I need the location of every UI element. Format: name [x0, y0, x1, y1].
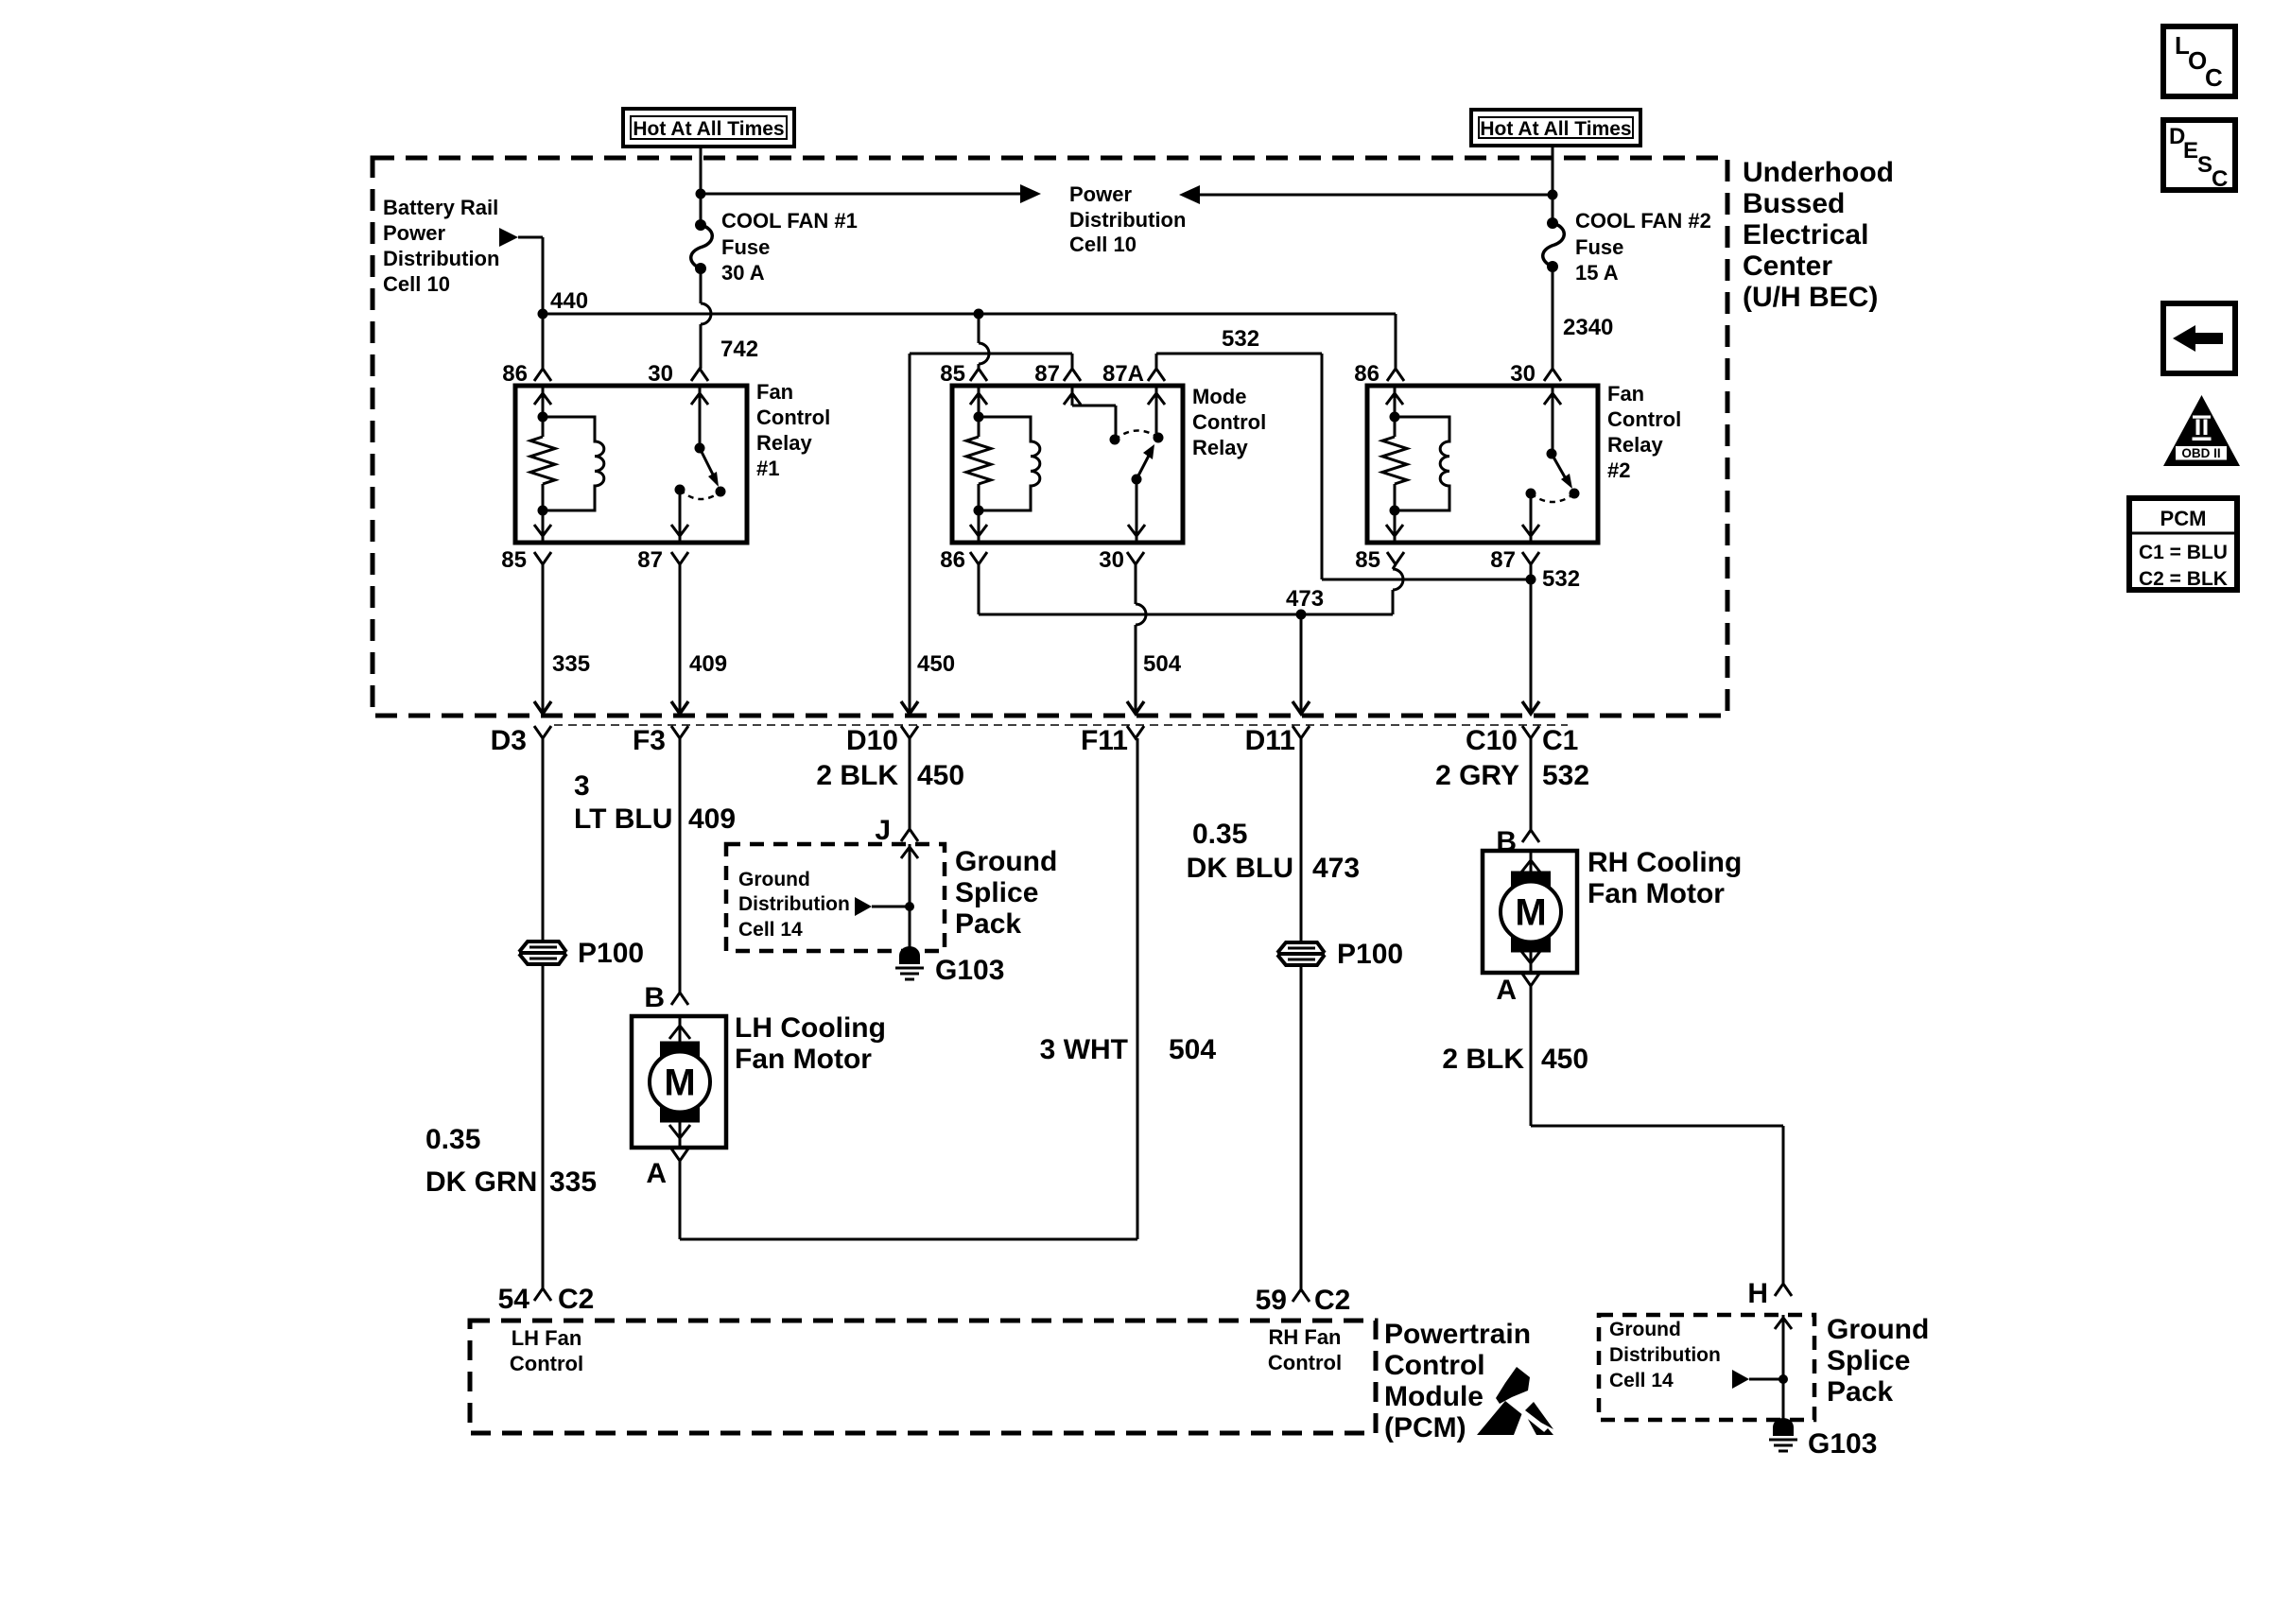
svg-text:Ground: Ground [738, 869, 810, 890]
BEC exit arrow at D3 [534, 701, 551, 714]
svg-text:C1: C1 [1542, 725, 1578, 756]
svg-text:Fan: Fan [1607, 382, 1644, 406]
splice J connector [875, 815, 918, 846]
svg-text:RH Cooling: RH Cooling [1588, 847, 1742, 878]
svg-text:C2: C2 [558, 1284, 594, 1315]
svg-text:532: 532 [1222, 326, 1259, 352]
svg-text:Splice: Splice [1827, 1345, 1910, 1376]
wire label 450 (inside BEC) [917, 651, 955, 677]
label: COOL FAN #2 Fuse 15 A [1575, 209, 1711, 285]
wire 440 branch down to relay 2 pin 86 [1395, 314, 1397, 369]
relay K2 pin 30 connector [1510, 361, 1561, 387]
svg-text:P100: P100 [578, 938, 644, 969]
wire: mode relay pin 87 elbow to vertical 450 run [910, 354, 1072, 705]
svg-text:Distribution: Distribution [1069, 208, 1186, 232]
label: Ground Splice Pack (middle) [955, 846, 1057, 940]
svg-text:86: 86 [940, 547, 965, 573]
wire label 335 [552, 651, 590, 677]
relay K2 switch (pin 30 to pin 87) [1522, 386, 1580, 543]
ground splice pack dashed box (middle) [726, 844, 945, 951]
svg-text:C10: C10 [1466, 725, 1518, 756]
BEC exit arrow at F3 [671, 701, 688, 714]
wire label 440 [550, 288, 588, 314]
svg-text:Relay: Relay [1607, 433, 1663, 457]
wire: LH motor pin A to wire 504 run [680, 738, 1137, 1239]
svg-text:COOL FAN #2: COOL FAN #2 [1575, 209, 1711, 233]
inline connector P100 (right) [1277, 939, 1403, 970]
svg-text:3 WHT: 3 WHT [1040, 1034, 1128, 1065]
svg-text:D10: D10 [846, 725, 898, 756]
label: 2 BLK 450 (D10) [816, 760, 964, 791]
label: 2 BLK 450 (RH motor) [1442, 1044, 1588, 1075]
svg-text:3: 3 [574, 770, 590, 802]
wire label 409 [689, 651, 727, 677]
label: Fan Control Relay #1 [756, 380, 830, 480]
connector D11 [1245, 725, 1310, 756]
svg-text:Relay: Relay [1192, 436, 1248, 459]
connector C1 label [1542, 725, 1578, 756]
svg-text:F3: F3 [633, 725, 666, 756]
svg-text:Hot At All Times: Hot At All Times [1480, 118, 1631, 140]
wire label 504 [1143, 651, 1182, 677]
PCM pin 54 connector [498, 1284, 595, 1315]
label: Powertrain Control Module (PCM) [1384, 1319, 1531, 1443]
svg-text:DK BLU: DK BLU [1187, 853, 1293, 884]
svg-text:Ground: Ground [955, 846, 1057, 877]
svg-text:85: 85 [1355, 547, 1380, 573]
svg-text:86: 86 [502, 361, 528, 387]
wire: right Hot At All Times drop to fuse 2 [1548, 146, 1558, 223]
PCM pin 59 connector [1256, 1285, 1351, 1316]
mode relay pin 86 connector [940, 547, 987, 573]
svg-text:#1: #1 [756, 457, 779, 480]
label: 0.35 DK GRN 335 [425, 1124, 597, 1198]
svg-text:30 A: 30 A [721, 261, 765, 285]
svg-text:C: C [2212, 166, 2228, 192]
svg-text:335: 335 [549, 1166, 597, 1198]
svg-text:F11: F11 [1081, 725, 1128, 756]
svg-text:532: 532 [1542, 760, 1589, 791]
svg-text:450: 450 [917, 760, 964, 791]
wire 504: mode relay pin 30 down to connector F11 [1136, 564, 1146, 705]
svg-text:C: C [2205, 63, 2223, 92]
RH motor pin B connector [1496, 826, 1539, 857]
svg-text:G103: G103 [1808, 1428, 1877, 1460]
svg-text:S: S [2197, 152, 2212, 178]
arrow wire from right feed to Power Distribution (left-pointing) [1179, 185, 1553, 204]
svg-text:Control: Control [1192, 410, 1266, 434]
arrow wire to Power Distribution Cell 10 (right-pointing) [701, 184, 1041, 203]
mode relay pin 85 connector [940, 361, 987, 387]
svg-text:335: 335 [552, 651, 590, 677]
relay K2 coil branch (pins 86/85) with resistor and coil [1382, 386, 1449, 543]
mode relay pin 87 connector [1034, 361, 1081, 387]
wire: left Hot At All Times drop to fuse 1 [696, 147, 706, 225]
svg-text:Bussed: Bussed [1743, 188, 1845, 219]
svg-text:450: 450 [917, 651, 955, 677]
svg-text:54: 54 [498, 1284, 530, 1315]
BEC exit arrow at F11 [1127, 701, 1144, 714]
sidebar icon: PCM connector legend [2129, 498, 2237, 590]
svg-text:Mode: Mode [1192, 385, 1246, 408]
fuse COOL FAN #2 15 A [1543, 217, 1565, 272]
svg-text:Splice: Splice [955, 877, 1038, 908]
label: Power Distribution Cell 10 [1069, 182, 1186, 256]
svg-text:C2 = BLK: C2 = BLK [2139, 568, 2228, 590]
svg-text:Module: Module [1384, 1381, 1484, 1412]
svg-text:COOL FAN #1: COOL FAN #1 [721, 209, 858, 233]
sidebar icon: OBD II triangle [2163, 395, 2240, 466]
svg-text:Underhood: Underhood [1743, 157, 1894, 188]
wire 473 horizontal: mode relay 86 to relay2 pin 85 [979, 564, 1403, 620]
svg-text:Pack: Pack [1827, 1376, 1893, 1408]
wire 440 branch down to relay 1 pin 86 [542, 314, 545, 369]
wire: C10 to RH fan motor pin B [1530, 738, 1533, 830]
wire label 532 (top) [1222, 326, 1259, 352]
svg-text:LT BLU: LT BLU [574, 803, 672, 835]
svg-text:D11: D11 [1245, 725, 1295, 756]
svg-text:Control: Control [756, 406, 830, 429]
label: RH Fan Control [1268, 1325, 1342, 1374]
wire 440 branch down to mode relay pin 85 [979, 314, 989, 369]
svg-text:P100: P100 [1337, 939, 1403, 970]
svg-text:C2: C2 [1314, 1285, 1350, 1316]
svg-text:2 GRY: 2 GRY [1435, 760, 1519, 791]
wire: D3 to PCM pin 54 [542, 738, 545, 1288]
svg-text:30: 30 [1510, 361, 1536, 387]
label: Underhood Bussed Electrical Center (U/H BEC) [1743, 157, 1894, 313]
svg-text:Battery Rail: Battery Rail [383, 196, 498, 219]
svg-text:87: 87 [1034, 361, 1060, 387]
RH motor pin A connector [1496, 974, 1539, 1006]
relay K1 pin 85 connector [501, 547, 551, 573]
label: 3 LT BLU 409 [574, 770, 736, 835]
svg-text:(U/H BEC): (U/H BEC) [1743, 282, 1878, 313]
svg-text:Center: Center [1743, 251, 1832, 282]
relay K1 switch (pin 30 to pin 87) [671, 386, 726, 543]
svg-text:Powertrain: Powertrain [1384, 1319, 1531, 1350]
label: Fan Control Relay #2 [1607, 382, 1681, 482]
RH Cooling Fan Motor [1483, 847, 1742, 973]
wire from battery rail arrow to node 440 [518, 237, 543, 314]
svg-text:742: 742 [720, 337, 758, 362]
svg-text:85: 85 [940, 361, 965, 387]
svg-text:30: 30 [1099, 547, 1124, 573]
label: 2 GRY 532 (C10) [1435, 760, 1589, 791]
svg-text:87: 87 [1490, 547, 1516, 573]
ground G103 (right) [1769, 1418, 1877, 1460]
svg-text:409: 409 [689, 651, 727, 677]
ground distribution feed arrow (right) [1732, 1370, 1788, 1389]
relay K1 coil branch (pins 86/85) with resistor and coil [530, 386, 604, 543]
Underhood Bussed Electrical Center dashed enclosure [373, 158, 1727, 716]
svg-text:(PCM): (PCM) [1384, 1412, 1466, 1443]
BEC exit arrow at D10 [901, 701, 918, 714]
Powertrain Control Module dashed box [470, 1321, 1376, 1433]
svg-text:473: 473 [1286, 586, 1324, 612]
svg-text:RH Fan: RH Fan [1269, 1325, 1342, 1349]
svg-text:OBD II: OBD II [2181, 446, 2220, 460]
svg-text:87: 87 [637, 547, 663, 573]
svg-text:C1 = BLU: C1 = BLU [2139, 542, 2228, 563]
connector D10 [846, 725, 918, 756]
label: Ground Distribution Cell 14 (middle) [738, 869, 850, 941]
svg-text:2 BLK: 2 BLK [1442, 1044, 1524, 1075]
svg-text:A: A [646, 1158, 667, 1189]
svg-text:Power: Power [383, 221, 445, 245]
relay K2 box (Fan Control Relay #2) [1367, 386, 1598, 543]
svg-text:Cell 10: Cell 10 [383, 272, 450, 296]
svg-text:LH Cooling: LH Cooling [735, 1012, 886, 1044]
svg-text:85: 85 [501, 547, 527, 573]
wire label 532 (at junction) [1542, 566, 1580, 592]
svg-text:Control: Control [1384, 1350, 1485, 1381]
BEC exit arrow at C10 [1522, 701, 1539, 714]
ground splice pack dashed box (right) [1599, 1315, 1814, 1420]
svg-text:Hot At All Times: Hot At All Times [633, 118, 784, 140]
wire 742 from fuse 1 to relay 1 pin 30 [701, 268, 711, 369]
svg-text:2340: 2340 [1563, 315, 1613, 340]
wire: junction 473 down to connector D11 [1300, 614, 1303, 705]
svg-text:30: 30 [648, 361, 673, 387]
power label box: Hot At All Times (left feed) [623, 109, 794, 147]
mode relay pin 87A connector [1102, 361, 1165, 387]
svg-text:Cell 10: Cell 10 [1069, 233, 1136, 256]
off-page arrow from Battery Rail [499, 228, 518, 247]
svg-text:Distribution: Distribution [1609, 1344, 1721, 1366]
svg-text:87A: 87A [1102, 361, 1144, 387]
wire: RH motor pin A to ground splice pack H [1531, 986, 1783, 1284]
svg-text:Power: Power [1069, 182, 1132, 206]
svg-text:2 BLK: 2 BLK [816, 760, 898, 791]
relay K1 box (Fan Control Relay #1) [515, 386, 747, 543]
wire label 473 [1286, 586, 1324, 612]
wire: splice pack internal to G103 (right) [1775, 1315, 1792, 1420]
svg-text:473: 473 [1312, 853, 1360, 884]
svg-text:Cell 14: Cell 14 [738, 919, 803, 941]
svg-text:86: 86 [1354, 361, 1379, 387]
sidebar icon: LOC box [2163, 26, 2235, 96]
wire hop label 742 [720, 337, 758, 362]
wire 409: relay1 pin 87 down to connector F3 [679, 564, 682, 705]
BEC exit arrow at D11 [1293, 701, 1310, 714]
label: 3 WHT 504 [1040, 1034, 1217, 1065]
svg-text:E: E [2183, 138, 2198, 164]
svg-text:Fan Motor: Fan Motor [735, 1044, 872, 1075]
svg-text:Control: Control [1607, 407, 1681, 431]
svg-text:440: 440 [550, 288, 588, 314]
wire 440 horizontal rail [538, 309, 1397, 320]
mode control relay box [952, 386, 1183, 543]
relay K1 pin 30 connector [648, 361, 708, 387]
svg-text:M: M [664, 1063, 695, 1104]
LH Cooling Fan Motor [632, 1012, 886, 1148]
wire 335: relay1 pin 85 down to connector D3 [542, 564, 545, 705]
svg-text:Distribution: Distribution [383, 247, 499, 270]
svg-text:DK GRN: DK GRN [425, 1166, 537, 1198]
svg-text:450: 450 [1541, 1044, 1588, 1075]
mode relay pin 30 connector [1099, 547, 1144, 573]
wire: F3 to LH fan motor pin B [679, 738, 682, 993]
svg-text:Cell 14: Cell 14 [1609, 1370, 1674, 1391]
label: LH Fan Control [510, 1326, 583, 1375]
mode relay coil branch (pins 85/86) with resistor and coil [966, 386, 1040, 543]
svg-text:LH Fan: LH Fan [512, 1326, 582, 1350]
ground distribution feed arrow (middle) [855, 897, 914, 916]
wire 2340 from fuse 2 to relay 2 pin 30 [1552, 267, 1554, 369]
LH motor pin B connector [644, 982, 688, 1013]
svg-text:Control: Control [510, 1352, 583, 1375]
connector D3 [491, 725, 551, 756]
label: Ground Splice Pack (right) [1827, 1314, 1929, 1408]
svg-text:B: B [644, 982, 665, 1013]
svg-text:409: 409 [688, 803, 736, 835]
sidebar icon: back arrow box [2163, 303, 2235, 373]
svg-text:Distribution: Distribution [738, 893, 850, 915]
label: 0.35 DK BLU 473 [1187, 819, 1360, 884]
label: Ground Distribution Cell 14 (right) [1609, 1319, 1721, 1391]
wire 532: relay2 pin 87 down to connector C10 [1530, 564, 1533, 705]
svg-text:A: A [1496, 975, 1517, 1006]
svg-text:0.35: 0.35 [1192, 819, 1247, 850]
svg-text:15 A: 15 A [1575, 261, 1619, 285]
svg-text:Fan Motor: Fan Motor [1588, 878, 1725, 909]
ground G103 (middle) [895, 946, 1004, 986]
connector F11 [1081, 725, 1144, 756]
label: Battery Rail Power Distribution Cell 10 [383, 196, 499, 296]
connector interface thin dashed line [554, 724, 1568, 726]
mode relay switch (pins 87 / 87A / 30) [1064, 386, 1165, 543]
svg-text:D3: D3 [491, 725, 527, 756]
wire label 2340 [1563, 315, 1613, 340]
svg-text:Fuse: Fuse [1575, 235, 1623, 259]
wire 532: mode relay pin 87A up and right then down to relay2 pin 87 node [1156, 354, 1536, 585]
label: COOL FAN #1 Fuse 30 A [721, 209, 858, 285]
wire: splice pack internal to G103 (middle) [901, 844, 918, 948]
relay K2 pin 86 connector [1354, 361, 1404, 387]
fuse COOL FAN #1 30 A [691, 219, 713, 274]
svg-text:504: 504 [1143, 651, 1182, 677]
sidebar icon: DESC box [2163, 120, 2235, 192]
svg-text:#2: #2 [1607, 458, 1630, 482]
connector F3 [633, 725, 688, 756]
svg-text:Relay: Relay [756, 431, 812, 455]
svg-text:Fuse: Fuse [721, 235, 770, 259]
wire: D10 down to splice pack J [909, 738, 911, 829]
label: Mode Control Relay [1192, 385, 1266, 459]
svg-text:59: 59 [1256, 1285, 1287, 1316]
connector C10 [1466, 725, 1539, 756]
svg-text:Ground: Ground [1827, 1314, 1929, 1345]
svg-text:532: 532 [1542, 566, 1580, 592]
splice H connector [1747, 1278, 1792, 1309]
LH motor pin A connector [646, 1149, 688, 1189]
svg-text:H: H [1747, 1278, 1768, 1309]
relay K1 pin 86 connector [502, 361, 551, 387]
svg-text:Fan: Fan [756, 380, 793, 404]
svg-text:504: 504 [1169, 1034, 1216, 1065]
svg-text:PCM: PCM [2160, 507, 2207, 530]
ESD caution symbol [1477, 1367, 1553, 1435]
svg-text:Electrical: Electrical [1743, 219, 1868, 251]
relay K2 pin 85 connector [1355, 547, 1404, 573]
relay K1 pin 87 connector [637, 547, 688, 573]
svg-text:0.35: 0.35 [425, 1124, 480, 1155]
wire: D11 to PCM pin 59 [1300, 738, 1303, 1289]
relay K2 pin 87 connector [1490, 547, 1539, 573]
svg-text:G103: G103 [935, 955, 1004, 986]
svg-text:Pack: Pack [955, 908, 1021, 940]
svg-text:M: M [1515, 892, 1546, 934]
svg-text:J: J [875, 815, 891, 846]
power label box: Hot At All Times (right feed) [1471, 110, 1640, 146]
svg-text:Control: Control [1268, 1351, 1342, 1374]
inline connector P100 (left) [519, 938, 644, 969]
svg-text:Ground: Ground [1609, 1319, 1681, 1340]
